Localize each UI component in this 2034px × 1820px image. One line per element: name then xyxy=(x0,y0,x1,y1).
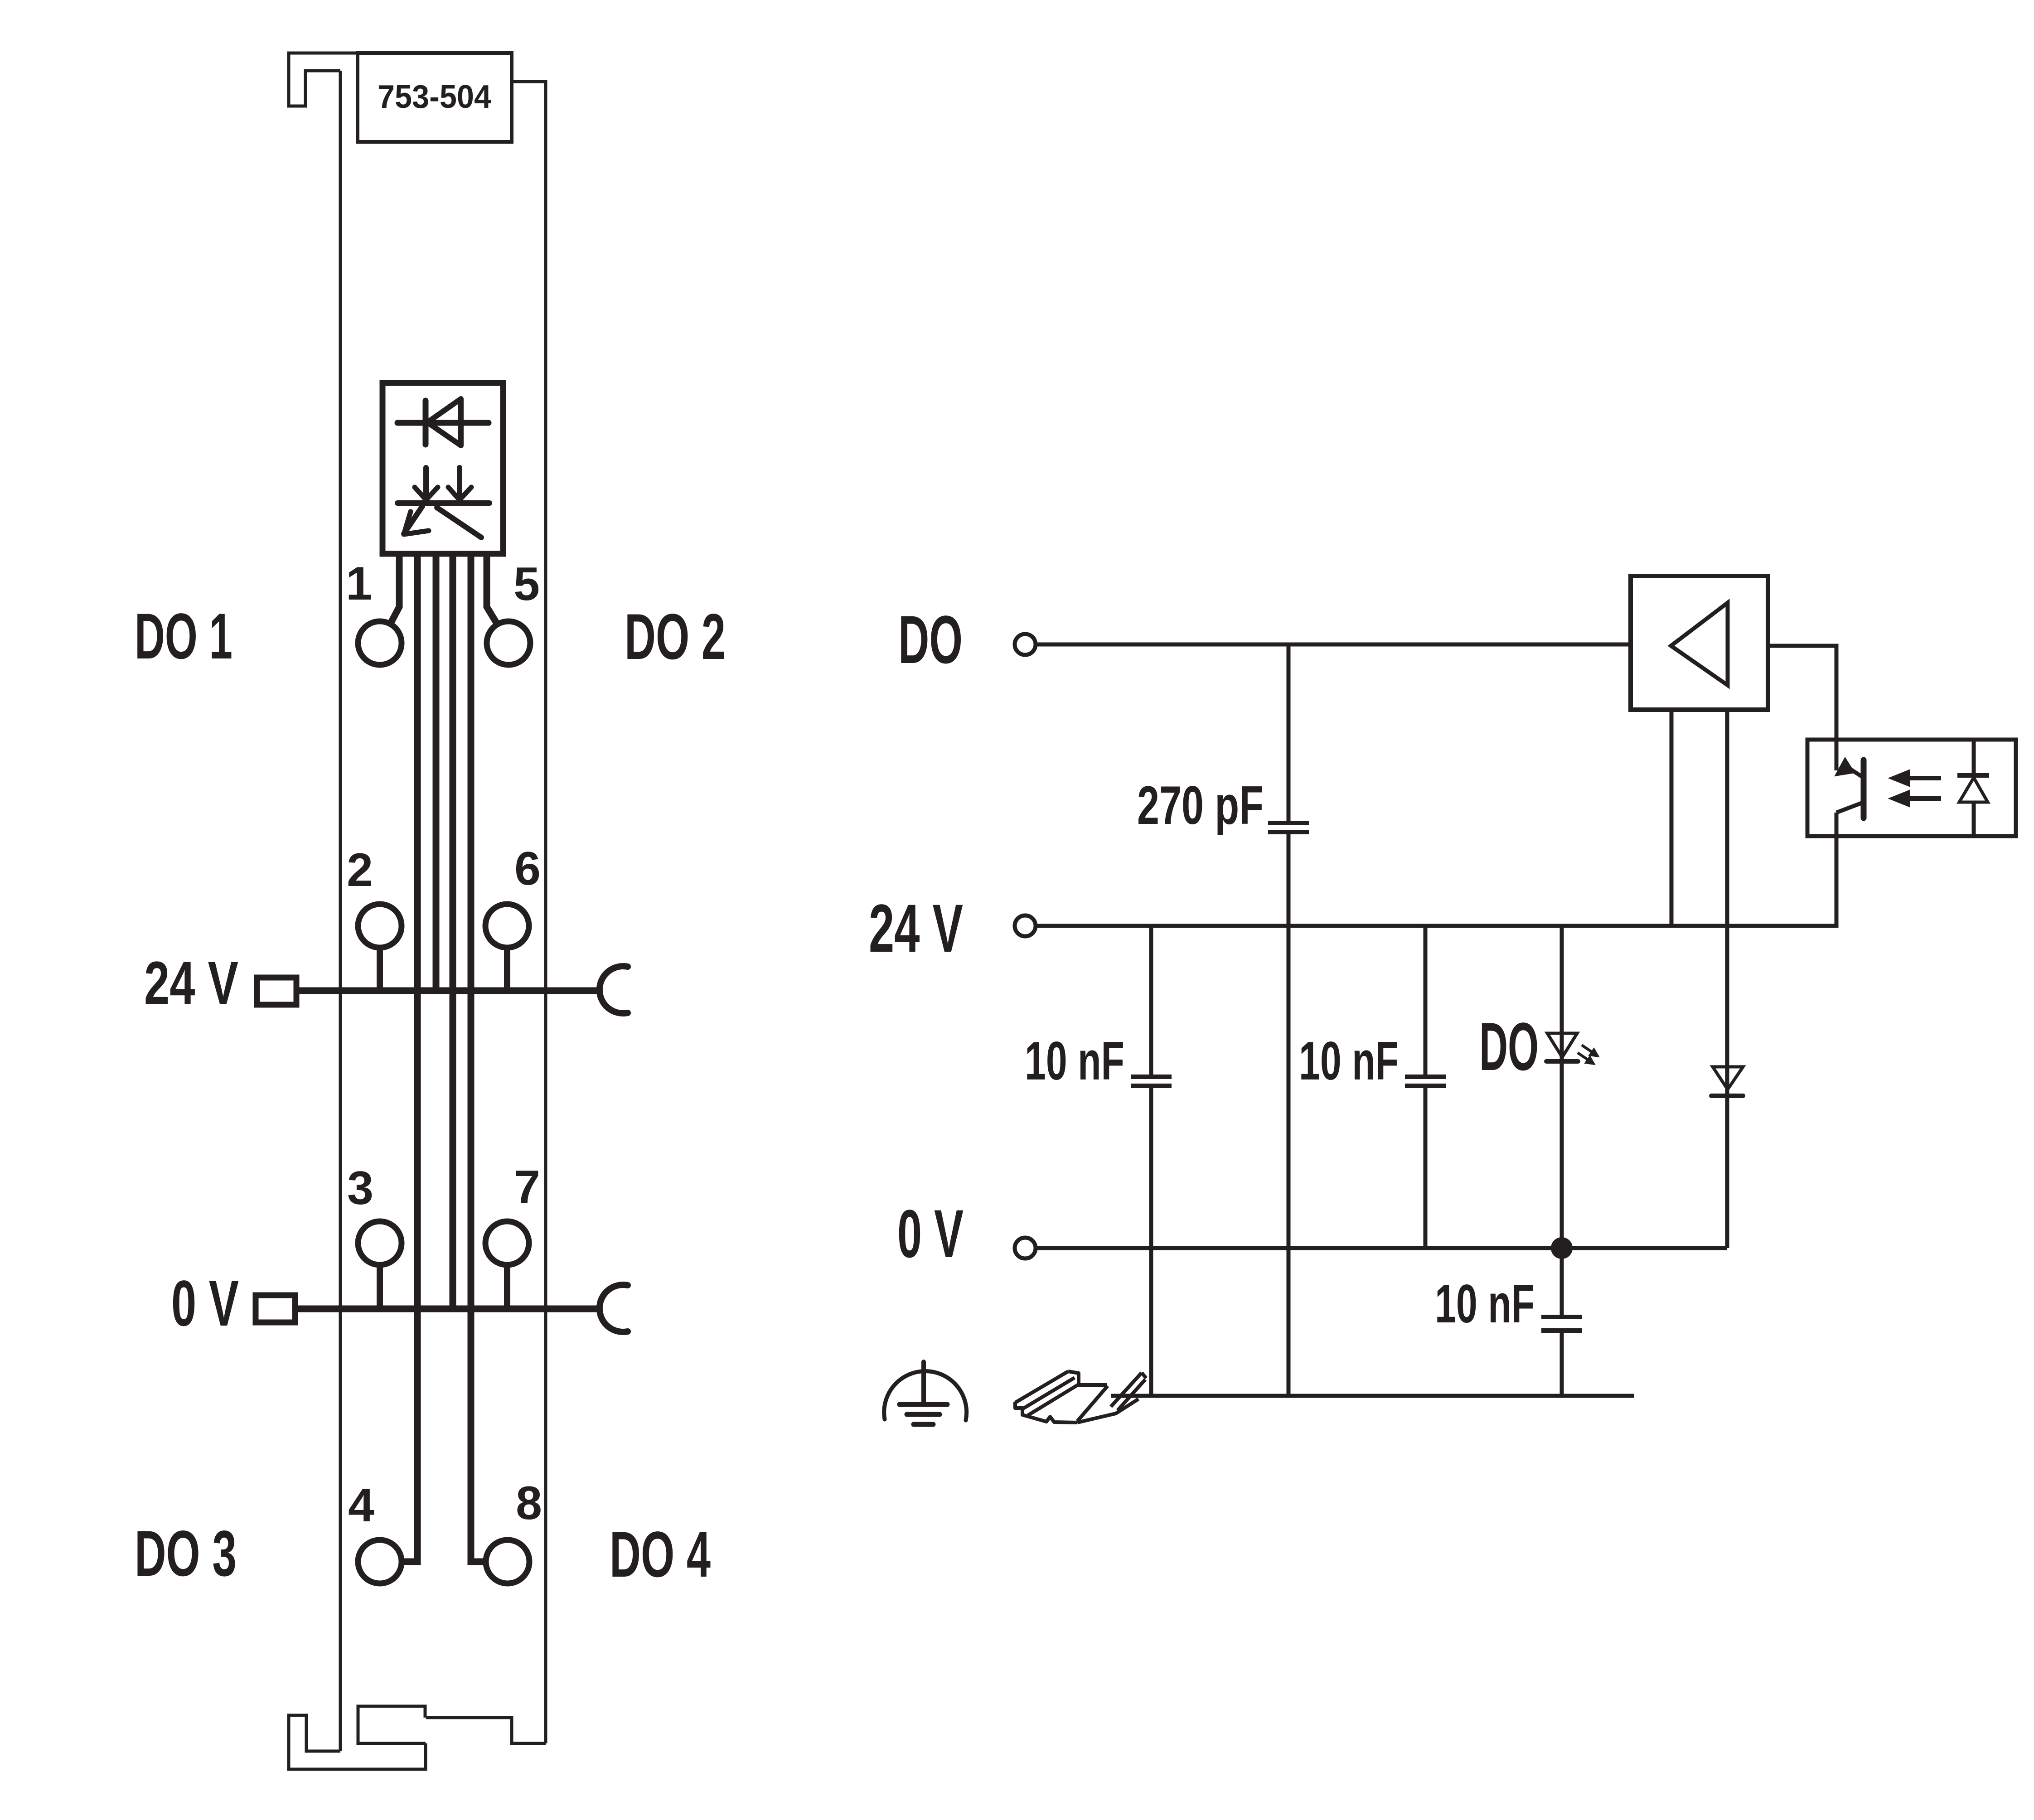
24V rail xyxy=(297,987,600,994)
270pF branch wire xyxy=(1287,644,1291,1396)
pin 1 circle xyxy=(358,621,402,665)
svg-text:5: 5 xyxy=(513,558,540,610)
amplifier box xyxy=(1631,576,1768,710)
capacitor C1 270pF xyxy=(1268,823,1309,832)
24V line xyxy=(1036,836,1836,926)
pin 2 circle xyxy=(358,904,402,948)
junction dot xyxy=(1551,1237,1573,1259)
LED light arrows xyxy=(1578,1045,1599,1065)
amp output wire xyxy=(1768,646,1836,740)
opto light arrows xyxy=(1889,770,1941,807)
optocoupler box xyxy=(1807,740,2016,836)
wire DO4 bus xyxy=(471,556,486,1562)
10nF capacitor C3 branch xyxy=(1424,926,1428,1248)
svg-text:2: 2 xyxy=(347,844,373,896)
pin 3 circle xyxy=(358,1221,402,1265)
24V terminal circle xyxy=(1015,915,1036,936)
DIN rail symbol xyxy=(1015,1371,1146,1423)
svg-text:10 nF: 10 nF xyxy=(1299,1031,1399,1091)
svg-text:4: 4 xyxy=(348,1479,374,1532)
svg-text:8: 8 xyxy=(516,1477,542,1530)
svg-text:10 nF: 10 nF xyxy=(1025,1031,1124,1091)
0V rail xyxy=(297,1306,600,1312)
pin 8 circle xyxy=(486,1540,529,1583)
wire 0V bus xyxy=(450,556,456,1309)
24V terminal square xyxy=(257,978,296,1005)
wire pin1 xyxy=(390,556,399,624)
protection box U1 xyxy=(383,383,503,554)
amp triangle xyxy=(1671,603,1728,685)
svg-text:0 V: 0 V xyxy=(897,1196,964,1272)
opto LED xyxy=(1957,740,1989,836)
stem pin3 xyxy=(377,1265,383,1309)
wire 24V bus xyxy=(433,556,440,991)
svg-text:DO: DO xyxy=(898,601,963,678)
LED DO xyxy=(1546,1033,1578,1061)
svg-text:753-504: 753-504 xyxy=(378,79,491,115)
svg-text:270 pF: 270 pF xyxy=(1137,775,1264,836)
wire DO3 bus xyxy=(402,556,417,1562)
pin 7 circle xyxy=(485,1221,529,1265)
stem pin2 xyxy=(377,948,383,991)
svg-text:0 V: 0 V xyxy=(171,1268,239,1340)
0V terminal circle xyxy=(1015,1238,1036,1259)
pin 4 circle xyxy=(358,1540,402,1583)
svg-text:DO 2: DO 2 xyxy=(625,601,726,673)
capacitor C2 10nF xyxy=(1131,1077,1172,1086)
label box 753-504 xyxy=(358,53,512,142)
wire pin5 xyxy=(487,556,497,624)
suppressor symbol (in box) xyxy=(397,468,489,537)
DO terminal circle xyxy=(1015,634,1036,655)
24V jumper contact arc xyxy=(600,966,628,1013)
svg-text:1: 1 xyxy=(346,557,372,610)
svg-text:24 V: 24 V xyxy=(144,949,238,1017)
svg-text:DO 1: DO 1 xyxy=(135,600,232,673)
DO line xyxy=(1036,643,1631,647)
capacitor C4 10nF xyxy=(1541,1317,1582,1331)
stem pin6 xyxy=(504,948,510,991)
0V jumper contact arc xyxy=(600,1285,628,1332)
svg-text:DO 3: DO 3 xyxy=(135,1518,237,1590)
diode D1 (in box) xyxy=(397,399,489,445)
0V terminal square xyxy=(256,1295,295,1322)
capacitor C3 10nF xyxy=(1405,1077,1446,1086)
earth ground symbol xyxy=(884,1362,967,1424)
DO LED branch wire xyxy=(1560,926,1564,1396)
svg-text:24 V: 24 V xyxy=(869,890,963,966)
svg-text:3: 3 xyxy=(347,1162,373,1215)
pin 6 circle xyxy=(485,904,529,948)
svg-text:DO 4: DO 4 xyxy=(610,1519,711,1591)
ground bus xyxy=(1111,1394,1634,1398)
svg-text:7: 7 xyxy=(514,1161,540,1214)
10nF capacitor C2 branch xyxy=(1149,926,1153,1396)
svg-text:DO: DO xyxy=(1479,1008,1539,1084)
phototransistor Q1 xyxy=(1835,740,1864,836)
module outline xyxy=(289,53,546,1769)
svg-text:6: 6 xyxy=(514,842,541,895)
amp wire to 24V xyxy=(1670,710,1674,926)
diode D2 xyxy=(1711,1067,1743,1096)
svg-text:10 nF: 10 nF xyxy=(1435,1273,1535,1334)
freewheeling diode D2 branch xyxy=(1725,710,1729,1248)
0V line xyxy=(1036,1246,1727,1250)
stem pin7 xyxy=(504,1265,510,1309)
pin 5 circle xyxy=(487,621,530,665)
